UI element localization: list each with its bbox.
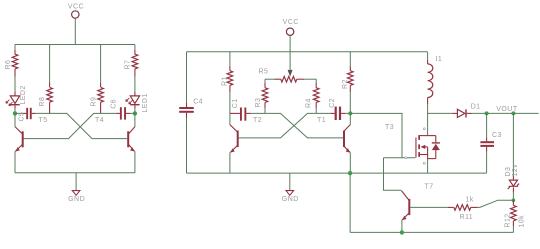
zener diode D3 value 12v [505,113,519,200]
svg-text:R12: R12 [505,213,512,227]
wire GND drop (middle) [289,173,291,191]
svg-text:D3: D3 [505,167,512,177]
resistor R9 [90,45,103,114]
LED LED1 [126,92,149,113]
node junction D3 tap [511,111,515,115]
capacitor C6 [110,99,130,120]
wire T2 collector [229,113,231,125]
svg-text:1k: 1k [466,196,474,203]
diode D1 [452,104,480,118]
svg-text:T5: T5 [39,117,48,124]
wire LED2 to junction [14,109,16,114]
wire VCC feed (left) [74,18,76,44]
svg-text:R4: R4 [305,98,312,108]
node junction feedback (D3/R11/R12) [512,198,516,202]
wire R6 to LED2 [14,77,16,93]
ground GND (middle) [282,191,299,203]
pot wiper arrow of R5 [288,70,293,77]
resistor R3 [255,79,268,113]
capacitor C5 [19,108,36,122]
wire top rail (left) [15,44,135,46]
wire gate to T7 collector [384,158,402,191]
svg-text:GND: GND [282,196,299,203]
node junction LED2/C5/T5 [13,111,17,115]
resistor R6 [5,45,18,77]
svg-text:R8: R8 [39,97,46,107]
svg-text:T1: T1 [317,117,326,124]
svg-text:12v: 12v [512,164,519,177]
svg-text:R9: R9 [90,97,97,107]
node junction C3 tap [485,111,489,115]
svg-text:D1: D1 [471,104,481,111]
svg-text:R3: R3 [255,98,262,108]
svg-text:R1: R1 [221,76,228,86]
wire T7 base [410,206,448,208]
transistor T1 [317,117,350,153]
power VCC (left) [68,4,84,19]
svg-text:C4: C4 [193,98,203,105]
capacitor C2 [329,98,346,120]
wire C6 to T5 base (cross link) [23,113,116,138]
svg-text:I1: I1 [436,56,443,63]
wire gate horizontal [384,157,416,159]
svg-text:R5: R5 [259,68,269,75]
resistor R4 [305,79,319,113]
transistor T2 [230,117,262,153]
wire C5 to T4 base (cross link) [36,113,128,138]
wire drain tap to D1 [428,112,453,114]
svg-text:C2: C2 [329,98,336,108]
wire T3 source to ground rail [427,166,429,173]
net VOUT wire [472,112,539,114]
svg-text:GND: GND [68,196,85,203]
wire T4 collector [134,113,136,127]
wire R7 to LED1 [134,77,136,93]
wire bottom feedback rail [350,231,513,233]
svg-text:C3: C3 [492,132,502,139]
wire T5 emitter to rail [14,151,16,173]
svg-text:VCC: VCC [68,4,84,11]
resistor R1 [221,52,232,114]
node junction LED1/C6/T4 [133,111,137,115]
svg-text:10k: 10k [519,215,526,228]
capacitor C1 [230,98,251,120]
wire junction to C5 [15,112,23,114]
wire T1 collector to gate net [350,113,402,157]
svg-text:R11: R11 [460,214,474,221]
resistor R12 value 10k [505,200,526,232]
mosfet T3 [385,124,440,166]
wire R11 to feedback node [478,200,514,207]
svg-text:LED2: LED2 [20,85,27,104]
svg-text:R2: R2 [342,79,349,89]
wire C1 to T1 base (cross link) [251,113,343,137]
wire inductor to drain node [427,104,429,128]
wire C6 to junction [131,112,135,114]
wire T2 emitter to rail [229,152,231,173]
wire GND drop (left) [75,173,77,191]
wire T4 emitter to rail [134,151,136,173]
svg-text:C1: C1 [232,98,239,108]
resistor R2 [342,52,353,114]
svg-text:T7: T7 [425,184,434,191]
wire T5 collector [14,113,16,127]
LED LED2 [6,85,27,108]
svg-text:T4: T4 [95,117,104,124]
wire T7 emitter to bottom rail [401,220,403,233]
resistor R8 [39,45,52,114]
wire top rail (middle) [187,51,428,53]
wire C2 to T2 base (cross link) [239,113,331,137]
node junction R2/C2/T1/gate [348,111,352,115]
svg-text:R6: R6 [5,60,12,70]
svg-text:LED1: LED1 [142,93,149,112]
inductor I1 [428,52,443,104]
wire VCC feed to pot wiper [289,35,291,70]
svg-text:VCC: VCC [283,19,299,26]
capacitor C4 [179,52,203,173]
transistor T5 [15,117,47,152]
resistor R7 [125,45,138,77]
wire LED1 to junction [134,109,136,114]
wire C2 to T1 collector node [346,112,351,114]
pin mark gate [405,157,407,159]
svg-text:C5: C5 [19,112,26,122]
svg-text:C6: C6 [110,99,117,109]
wire ground rail (middle) [187,172,487,174]
wire T1 emitter to rail [349,152,351,173]
node junction ground branch [348,171,352,175]
node junction T7 emitter on rail [400,230,404,234]
transistor T4 [95,117,135,152]
potentiometer R5 [259,68,317,82]
capacitor C3 [480,113,501,173]
wire T1 collector [349,113,351,125]
ground GND (left) [68,191,85,203]
resistor R11 value 1k [448,196,478,221]
svg-text:T2: T2 [253,117,262,124]
wire bottom rail (left) [15,172,135,174]
power VCC (middle) [283,19,299,36]
svg-text:R7: R7 [125,60,132,70]
transistor T7 [401,184,433,221]
wire ground branch down [349,173,351,232]
svg-text:T3: T3 [385,124,394,131]
